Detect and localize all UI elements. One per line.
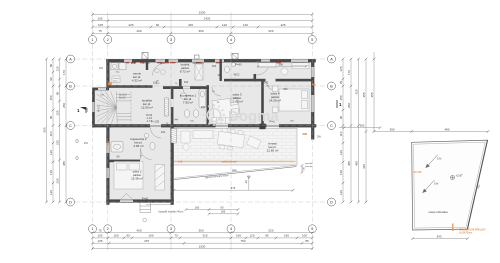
svg-text:160: 160 — [148, 234, 153, 238]
site dim line 390/480 — [374, 131, 488, 133]
svg-text:80: 80 — [49, 64, 53, 68]
svg-text:155: 155 — [56, 110, 60, 115]
bottom chain extension verticals — [93, 234, 313, 251]
svg-text:105: 105 — [97, 239, 102, 243]
openings in row C — [150, 124, 161, 128]
svg-text:90: 90 — [126, 234, 130, 238]
svg-text:C: C — [330, 123, 333, 128]
svg-text:12.80 m²: 12.80 m² — [231, 100, 243, 104]
svg-text:170: 170 — [347, 70, 351, 75]
wall row D (bottom facade) — [106, 199, 174, 202]
svg-text:425: 425 — [188, 23, 193, 27]
svg-text:400: 400 — [136, 29, 141, 33]
section marker 1 left — [80, 107, 86, 110]
svg-text:125: 125 — [56, 66, 60, 71]
fixtures servis — [111, 63, 126, 70]
door arc soba1 — [256, 62, 270, 76]
site plot boundary — [412, 140, 488, 230]
grid bubbles top — [89, 36, 97, 44]
svg-text:120: 120 — [160, 61, 165, 65]
svg-text:936: 936 — [232, 168, 237, 172]
svg-text:izgraditi: izgraditi — [305, 162, 313, 165]
svg-text:485: 485 — [355, 161, 359, 166]
svg-text:160: 160 — [113, 234, 118, 238]
svg-text:120 P=90: 120 P=90 — [192, 61, 204, 65]
svg-text:14.29 m²: 14.29 m² — [269, 99, 281, 103]
wardrobe soba 3 — [212, 118, 230, 124]
svg-text:520: 520 — [268, 229, 273, 233]
svg-text:160: 160 — [184, 80, 189, 84]
svg-text:95: 95 — [339, 116, 343, 120]
svg-text:4.95 m²: 4.95 m² — [133, 144, 143, 148]
svg-text:85: 85 — [305, 239, 309, 243]
svg-text:265: 265 — [56, 178, 60, 183]
window stair bay top wall — [98, 88, 106, 90]
svg-text:485: 485 — [347, 161, 351, 166]
door soba4 (arc) — [266, 79, 275, 81]
svg-text:150: 150 — [49, 95, 53, 100]
svg-text:110: 110 — [49, 131, 53, 136]
svg-text:905: 905 — [43, 127, 47, 132]
svg-text:C: C — [69, 123, 72, 128]
dim 50 right of terrace — [301, 166, 303, 173]
svg-text:45: 45 — [339, 81, 343, 85]
svg-text:400: 400 — [136, 229, 141, 233]
wall stubiste/kupaonica top band — [163, 86, 209, 89]
svg-text:120: 120 — [339, 150, 343, 155]
svg-text:-24: -24 — [244, 180, 248, 184]
pier on row C — [260, 124, 266, 130]
radiator stubiste wall — [165, 98, 168, 116]
hodnik small table — [161, 70, 166, 75]
svg-text:P=60: P=60 — [142, 196, 149, 200]
svg-text:480: 480 — [444, 127, 449, 131]
svg-text:390: 390 — [389, 127, 394, 131]
svg-text:360: 360 — [360, 124, 365, 128]
svg-text:zaštita terase: zaštita terase — [221, 159, 237, 163]
svg-text:60: 60 — [156, 23, 160, 27]
svg-text:šprica: šprica — [113, 81, 118, 83]
svg-text:D: D — [69, 199, 72, 204]
svg-text:B: B — [69, 83, 72, 88]
svg-text:105: 105 — [98, 23, 103, 27]
wall right (x=312) — [311, 59, 314, 140]
svg-text:445: 445 — [362, 164, 366, 169]
svg-text:-1.71: -1.71 — [146, 120, 152, 123]
wc fixtures — [225, 66, 230, 73]
svg-text:130: 130 — [339, 170, 343, 175]
elevation mark -0.24 — [248, 176, 250, 190]
svg-text:873: 873 — [231, 186, 236, 190]
svg-text:P=90: P=90 — [143, 61, 150, 65]
svg-text:120: 120 — [49, 150, 53, 155]
terrace lounge — [181, 131, 190, 143]
fixtures kupaonica 1 — [181, 89, 206, 117]
svg-text:120: 120 — [49, 190, 53, 195]
wall soba3/soba4 divider (x=262) — [261, 79, 264, 125]
grid lines horizontal (dashed) — [75, 59, 327, 202]
terrace dining table — [181, 128, 261, 150]
svg-text:+2.97: +2.97 — [456, 174, 464, 178]
svg-text:(+0): (+0) — [178, 160, 183, 163]
bed soba 2 — [114, 162, 165, 191]
svg-text:360: 360 — [279, 62, 284, 66]
svg-text:342: 342 — [264, 81, 269, 85]
wall stair bay bottom / row C left — [92, 124, 111, 127]
svg-text:7.90 m²: 7.90 m² — [183, 101, 193, 105]
svg-text:220: 220 — [56, 140, 60, 145]
bottom dimension chain line 4 (1530) — [93, 248, 313, 250]
window stair bay left wall — [92, 102, 94, 112]
wardrobe soba1 — [258, 63, 309, 75]
svg-text:1530: 1530 — [199, 244, 206, 248]
wall left lower block — [106, 124, 109, 205]
site dim 343 bottom — [413, 238, 468, 240]
door arc row C into kupaonica 2 — [151, 128, 162, 139]
staircase winder treads — [97, 92, 132, 124]
drip edge below bottom wall — [146, 204, 174, 206]
svg-text:P=170: P=170 — [99, 105, 101, 112]
svg-text:90: 90 — [49, 77, 53, 81]
wall stair bay top — [92, 88, 109, 91]
svg-text:WC2: WC2 — [234, 73, 240, 77]
top dimension chain line 1 (1530) — [93, 14, 313, 16]
wall kupaonica2/soba2 divider — [108, 160, 141, 163]
svg-text:4.32 m²: 4.32 m² — [132, 79, 142, 83]
svg-text:225: 225 — [128, 23, 133, 27]
shower cabin hodnik — [195, 64, 203, 80]
radiator hatched on lower block right wall — [171, 129, 176, 144]
top dimension chain line 3 — [93, 26, 313, 28]
svg-text:425: 425 — [280, 23, 285, 27]
svg-text:temeljni: temeljni — [305, 165, 313, 168]
svg-text:1%: 1% — [434, 182, 439, 186]
svg-text:A: A — [69, 56, 72, 61]
svg-text:105: 105 — [97, 234, 102, 238]
svg-text:85: 85 — [265, 234, 269, 238]
svg-text:160: 160 — [236, 234, 241, 238]
level marks left chain — [76, 140, 79, 143]
wall kupaonica1 right — [207, 85, 209, 126]
svg-text:95: 95 — [49, 116, 53, 120]
safety overflow note (orange) — [452, 224, 454, 232]
top chain extension verticals — [93, 12, 313, 36]
top dimension chain line 2 (105/1425) — [93, 20, 313, 22]
wall hodnik/wc divider — [220, 59, 222, 81]
svg-text:70: 70 — [174, 234, 178, 238]
grid bubbles left — [67, 55, 75, 63]
left dimension chains — [46, 59, 48, 202]
svg-text:110: 110 — [339, 131, 343, 136]
right dimension chains — [342, 59, 344, 202]
chimney stub 3 — [195, 55, 200, 59]
opening kupaonica1 top — [183, 86, 190, 88]
svg-text:455: 455 — [362, 92, 366, 97]
section marker 1 right — [336, 100, 338, 108]
svg-text:75: 75 — [98, 229, 102, 233]
grid bubbles right — [328, 55, 336, 63]
svg-text:475: 475 — [144, 239, 149, 243]
right outermost chain — [373, 52, 375, 132]
grid lines vertical (dashed) — [93, 44, 313, 225]
svg-text:3x DN75mm: 3x DN75mm — [459, 232, 472, 235]
svg-text:Dogma: Dogma — [228, 108, 279, 125]
svg-text:270: 270 — [131, 61, 136, 65]
svg-text:343: 343 — [436, 235, 441, 239]
chimney 1 — [142, 53, 148, 60]
svg-text:95: 95 — [56, 92, 60, 96]
terrace slab — [174, 129, 298, 166]
exterior stair bottom — [140, 203, 151, 213]
chimney 2 — [232, 54, 238, 60]
svg-text:15.38 m²: 15.38 m² — [131, 177, 143, 181]
wall servis bottom (row B) — [107, 85, 153, 88]
svg-text:160: 160 — [195, 205, 200, 209]
wall top-right room left (x=254) with door gap — [254, 59, 257, 62]
svg-text:A: A — [330, 56, 333, 61]
svg-text:nasip oblutaka: nasip oblutaka — [428, 210, 448, 214]
svg-text:1%: 1% — [437, 157, 442, 161]
svg-text:1425: 1425 — [204, 17, 211, 21]
svg-text:360: 360 — [198, 29, 203, 33]
svg-text:D: D — [330, 199, 333, 204]
svg-text:125: 125 — [339, 66, 343, 71]
dim 360 stub right of wall — [339, 127, 380, 129]
svg-text:170: 170 — [62, 70, 66, 75]
svg-text:Sv.0,2: Sv.0,2 — [119, 98, 126, 100]
wardrobe soba 2 right — [155, 165, 165, 191]
terrace fence diagonal — [174, 167, 297, 180]
bed soba 3 — [212, 97, 240, 119]
watermark logo — [203, 104, 225, 126]
slope arrow 2 — [423, 180, 435, 193]
wall col3 stubiste/kupaonica divider — [171, 88, 174, 126]
floor fill lower-left block — [108, 126, 174, 204]
svg-text:102: 102 — [161, 130, 166, 134]
svg-text:12.00 m²: 12.00 m² — [141, 106, 153, 110]
door stubiste->kupaonica — [171, 99, 174, 107]
red window sill marks — [124, 62, 305, 64]
svg-text:140: 140 — [86, 107, 89, 112]
wall kupaonica1 left — [179, 79, 182, 88]
svg-text:100: 100 — [302, 234, 307, 238]
windows right wall — [312, 67, 315, 77]
svg-text:300: 300 — [201, 105, 206, 109]
svg-text:75: 75 — [98, 29, 102, 33]
svg-text:185: 185 — [221, 210, 226, 214]
site right edge (thick) — [467, 140, 487, 229]
wall left (x=108) upper — [106, 59, 109, 88]
wall lower block right — [171, 124, 174, 205]
elevation marker +2.97 — [451, 176, 455, 180]
wall row A (top facade) — [106, 59, 315, 62]
door soba3 (arc) — [212, 85, 221, 87]
wall row C (long, with terrace door openings) — [108, 124, 316, 127]
svg-text:315: 315 — [202, 234, 207, 238]
windows left wall lower block — [107, 143, 109, 153]
wall row B right part (y=79.5) — [224, 79, 266, 82]
grid bubbles bottom — [89, 225, 97, 233]
small dims below bottom wall — [186, 209, 238, 211]
terrace protection orange line — [174, 160, 296, 162]
svg-text:250: 250 — [62, 103, 66, 108]
top dimension chain line 4 (column spacing) — [93, 32, 313, 34]
svg-text:105: 105 — [97, 17, 102, 21]
dim 873 — [174, 189, 293, 191]
wall stair bay left — [92, 88, 95, 128]
window openings top wall (white gaps + frame lines) — [124, 59, 132, 62]
svg-text:160: 160 — [212, 64, 217, 68]
window bottom wall — [120, 200, 133, 202]
svg-text:360: 360 — [198, 229, 203, 233]
svg-text:420: 420 — [355, 89, 359, 94]
svg-text:320: 320 — [283, 87, 288, 91]
svg-text:520: 520 — [268, 29, 273, 33]
svg-text:1530: 1530 — [199, 10, 206, 14]
svg-text:8.72 m²: 8.72 m² — [180, 70, 190, 74]
svg-text:485: 485 — [62, 161, 66, 166]
svg-text:P=90: P=90 — [235, 62, 242, 66]
fixtures kupaonica 2 — [111, 133, 155, 152]
bed soba 4 — [273, 86, 310, 113]
door kupaonica2 (arc up into bath) — [141, 149, 152, 160]
floor fill stair bay — [94, 88, 136, 127]
bottom dimension chain line 1 — [93, 232, 313, 234]
floor fill upper band — [108, 59, 315, 128]
entry door swing marks bottom — [120, 194, 133, 200]
svg-text:120: 120 — [339, 190, 343, 195]
svg-text:130: 130 — [49, 170, 53, 175]
bottom dimension chain line 3 — [93, 242, 313, 244]
svg-text:120: 120 — [222, 23, 227, 27]
door servis arc (into hodnik) — [153, 64, 165, 76]
svg-text:21.60 m²: 21.60 m² — [267, 149, 279, 153]
svg-text:120: 120 — [243, 23, 248, 27]
terrace paving hatch — [174, 128, 298, 162]
svg-text:455: 455 — [370, 92, 374, 97]
wall soba4 top (y=79) — [276, 79, 314, 82]
bottom dimension chain line 2 — [93, 237, 313, 239]
svg-text:B: B — [330, 83, 333, 88]
svg-text:SC 594: SC 594 — [414, 171, 423, 174]
svg-text:150: 150 — [339, 95, 343, 100]
svg-text:150: 150 — [284, 234, 289, 238]
svg-text:120: 120 — [249, 234, 254, 238]
wall servis/hodnik divider — [146, 59, 148, 70]
svg-text:P+135: P+135 — [151, 120, 160, 124]
svg-text:Su.St.0: Su.St.0 — [119, 94, 127, 97]
svg-text:250: 250 — [347, 103, 351, 108]
svg-text:750: 750 — [240, 239, 245, 243]
slope arrow 1 — [426, 155, 438, 168]
